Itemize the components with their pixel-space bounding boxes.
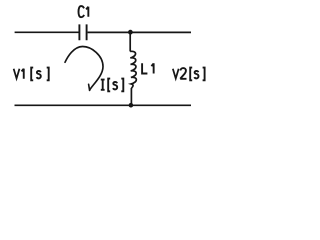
label V1[s] <box>14 68 49 81</box>
node bottom junction <box>129 103 134 108</box>
label L1 <box>142 63 154 73</box>
capacitor C1 <box>79 24 86 40</box>
wire bottom <box>15 104 192 106</box>
label C1 <box>79 6 89 17</box>
wire inductor bottom lead <box>130 88 132 105</box>
label V2[s] <box>173 68 205 81</box>
wire top-left <box>15 31 79 33</box>
arrowhead <box>89 84 90 90</box>
node top junction <box>128 30 133 35</box>
current arrow I[s] arc <box>65 46 103 90</box>
wire top-right <box>88 31 191 33</box>
label I[s] <box>101 79 124 92</box>
wire inductor top lead <box>129 32 131 51</box>
inductor L1 <box>130 51 136 88</box>
